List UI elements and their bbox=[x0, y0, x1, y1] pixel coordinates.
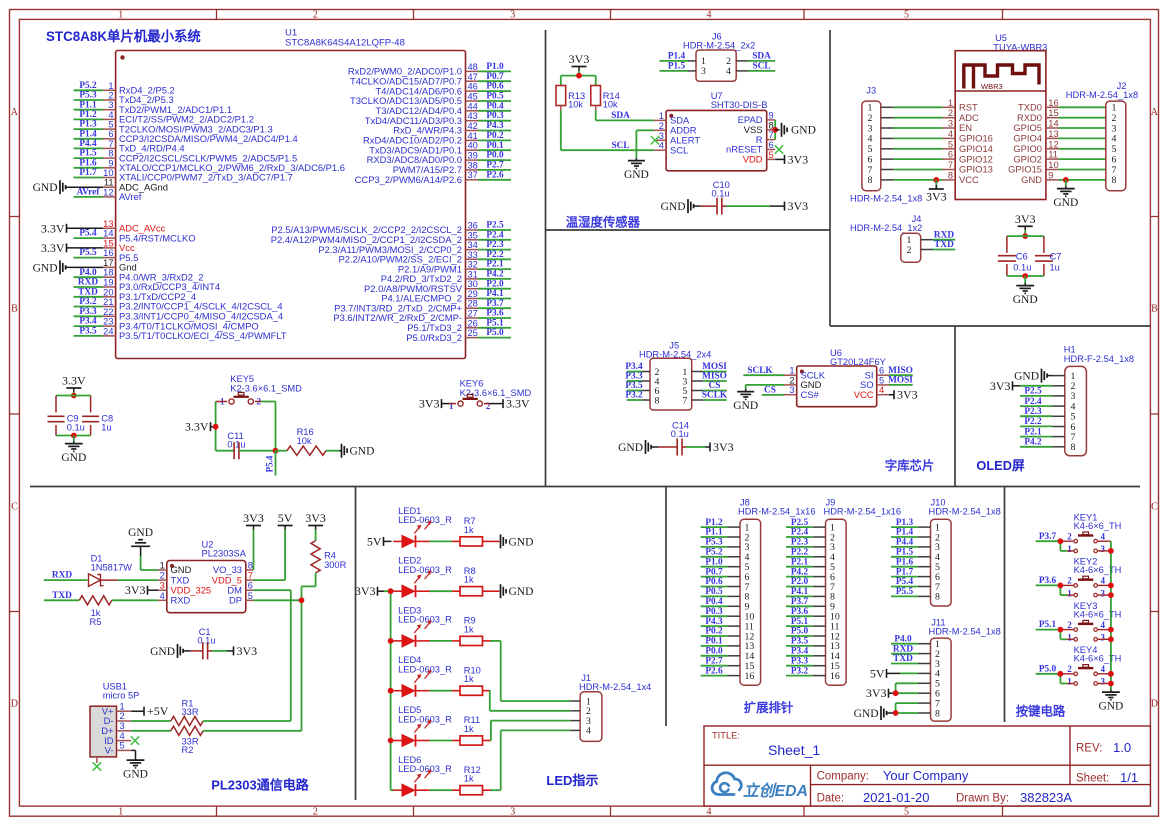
svg-text:CS: CS bbox=[709, 381, 721, 391]
U1 pin 4 ECI/T2/SS/PWM2_2/ADC2/P1.2 bbox=[74, 110, 254, 125]
svg-text:7: 7 bbox=[948, 160, 953, 170]
svg-text:44: 44 bbox=[468, 101, 478, 111]
svg-text:11: 11 bbox=[104, 178, 114, 188]
header J5 HDR-M-2.54_2x4 bbox=[639, 340, 711, 410]
svg-text:P1.7: P1.7 bbox=[896, 567, 914, 577]
svg-text:K4-6×6_TH: K4-6×6_TH bbox=[1074, 565, 1122, 575]
U1 pin 26 P5.1/TxD3_2 bbox=[407, 318, 511, 333]
svg-text:GND: GND bbox=[509, 536, 534, 548]
svg-text:SCL: SCL bbox=[670, 144, 688, 155]
header J6 HDR-M-2.54_2x2 bbox=[683, 31, 755, 81]
svg-text:P3.6: P3.6 bbox=[791, 607, 809, 617]
power flag 3V3 at H1 pin2 bbox=[990, 379, 1053, 393]
section title 按键电路 bbox=[1016, 704, 1066, 719]
svg-text:RXD: RXD bbox=[893, 644, 913, 654]
IC U7 SHT30-DIS-B bbox=[654, 91, 775, 171]
svg-text:4: 4 bbox=[1112, 134, 1117, 145]
svg-text:KEY5: KEY5 bbox=[230, 374, 254, 384]
svg-text:1u: 1u bbox=[101, 422, 111, 432]
svg-text:P3.6: P3.6 bbox=[486, 309, 504, 319]
wire J9 pin14 P3.4 bbox=[786, 647, 813, 657]
U5 pin 7 GPIO13 bbox=[893, 160, 992, 175]
ground GND right of R16 bbox=[339, 444, 374, 458]
svg-text:C6: C6 bbox=[1016, 251, 1028, 261]
wire U2 DM net bbox=[254, 590, 291, 721]
svg-text:3.3V: 3.3V bbox=[506, 397, 530, 411]
svg-text:AVref: AVref bbox=[119, 191, 142, 202]
svg-text:P2.3: P2.3 bbox=[1024, 407, 1042, 417]
junction KEY2 left bbox=[1058, 583, 1064, 589]
svg-text:2: 2 bbox=[1067, 531, 1072, 541]
svg-text:RXD: RXD bbox=[52, 571, 72, 581]
svg-text:4: 4 bbox=[707, 806, 712, 817]
ground GND below C6/C7 bbox=[1013, 276, 1038, 306]
wire KEY5 right leg bbox=[261, 402, 276, 451]
svg-text:6: 6 bbox=[769, 140, 774, 150]
U1 pin 27 P3.6/INT2/WR_2/RxD_2/CMP- bbox=[333, 309, 511, 324]
IC U6 GT20L24F6Y bbox=[784, 348, 889, 407]
svg-text:22: 22 bbox=[103, 307, 113, 317]
svg-text:3.3V: 3.3V bbox=[41, 241, 65, 255]
svg-text:LED-0603_R: LED-0603_R bbox=[398, 515, 452, 525]
svg-text:13: 13 bbox=[1048, 129, 1058, 139]
svg-text:P0.3: P0.3 bbox=[705, 607, 723, 617]
svg-text:P1.5: P1.5 bbox=[79, 149, 97, 159]
wire J8 pin14 P0.0 bbox=[701, 647, 728, 657]
svg-text:2: 2 bbox=[160, 571, 165, 581]
wire J8 pin3 P5.3 bbox=[701, 538, 728, 548]
resistor R5 1k bbox=[44, 596, 158, 627]
svg-text:P4.2: P4.2 bbox=[1024, 437, 1042, 447]
wire J8 pin13 P0.1 bbox=[701, 637, 728, 647]
svg-text:3V3: 3V3 bbox=[419, 397, 440, 411]
junction LED rail bbox=[388, 638, 394, 644]
wire J9 pin5 P2.1 bbox=[786, 557, 813, 567]
svg-text:P3.5: P3.5 bbox=[791, 637, 809, 647]
svg-text:HDR-M-2.54_1x2: HDR-M-2.54_1x2 bbox=[850, 223, 922, 233]
svg-text:14: 14 bbox=[103, 229, 113, 239]
no-connect X at USB1 ID bbox=[131, 736, 139, 744]
svg-text:4: 4 bbox=[586, 726, 591, 737]
svg-text:P0.4: P0.4 bbox=[705, 597, 723, 607]
svg-text:LED-0603_R: LED-0603_R bbox=[398, 615, 452, 625]
svg-text:3: 3 bbox=[1101, 544, 1106, 554]
svg-text:SDA: SDA bbox=[611, 111, 630, 121]
svg-text:P2.1: P2.1 bbox=[791, 557, 809, 567]
op-amp U1 designator labels bbox=[285, 28, 405, 49]
U1 pin 1 RxD4_2/P5.2 bbox=[74, 81, 175, 96]
svg-text:1: 1 bbox=[118, 806, 123, 817]
header H1 HDR-F-2.54_1x8 bbox=[1053, 345, 1135, 456]
svg-text:P0.0: P0.0 bbox=[486, 151, 504, 161]
wire C6/C7 top rail bbox=[1007, 235, 1044, 237]
svg-text:1k: 1k bbox=[464, 724, 474, 734]
svg-text:3V3: 3V3 bbox=[237, 644, 258, 658]
wire U6 CS# bbox=[762, 386, 784, 396]
svg-text:P5.2: P5.2 bbox=[79, 81, 97, 91]
svg-text:2: 2 bbox=[789, 375, 794, 385]
svg-text:5: 5 bbox=[769, 150, 774, 160]
junction LED rail bbox=[388, 688, 394, 694]
svg-text:34: 34 bbox=[468, 240, 478, 250]
wire U2 DP net bbox=[254, 600, 302, 731]
U1 pin 46 T4/ADC14/AD6/P0.6 bbox=[376, 82, 512, 97]
svg-text:P4.2: P4.2 bbox=[486, 270, 504, 280]
header J11 HDR-M-2.54_1x8 bbox=[918, 617, 1001, 721]
wire SDA net to U7 pin1 bbox=[596, 110, 654, 121]
wire J9 pin10 P3.6 bbox=[786, 607, 813, 617]
svg-text:0.1u: 0.1u bbox=[67, 422, 85, 432]
U1 pin 15 Vcc bbox=[41, 238, 135, 255]
svg-text:P2.6: P2.6 bbox=[486, 170, 504, 180]
svg-text:J3: J3 bbox=[866, 86, 876, 96]
junction U5 GND bbox=[1063, 177, 1069, 183]
resistor R10 1k bbox=[430, 665, 491, 695]
title block bbox=[704, 726, 1150, 806]
wire J5 left P3.5 bbox=[625, 381, 643, 391]
junction C6/C7 bottom bbox=[1022, 273, 1028, 279]
junction KEY4 left bbox=[1058, 671, 1064, 677]
junction C6/C7 top bbox=[1022, 233, 1028, 239]
power flag 3V3 at KEY6 left bbox=[419, 397, 450, 411]
U1 pin 7 TxD_4/RD/P4.4 bbox=[74, 139, 185, 154]
svg-text:Your Company: Your Company bbox=[883, 768, 969, 783]
svg-text:39: 39 bbox=[468, 151, 478, 161]
power flag 3V3 below U5 VCC bbox=[926, 180, 947, 204]
U1 pin 32 P2.1/A9/PWM1 bbox=[398, 260, 511, 275]
svg-text:5: 5 bbox=[948, 139, 953, 149]
wire H1 pin5 P2.3 bbox=[1020, 407, 1053, 417]
U1 pin 18 P4.0/WR_3/RxD2_2 bbox=[74, 268, 204, 283]
U1 pin 19 P3.0/RxD/CCP3_4/INT4 bbox=[74, 278, 221, 293]
svg-text:12: 12 bbox=[103, 187, 113, 197]
junction LED rail bbox=[388, 738, 394, 744]
wire J10 pin8 P5.5 bbox=[891, 587, 918, 597]
svg-text:P1.6: P1.6 bbox=[896, 557, 914, 567]
power flag 3V3 at LED rail bbox=[355, 584, 391, 598]
capacitor C10 0.1u bbox=[661, 180, 809, 215]
svg-text:36: 36 bbox=[468, 221, 478, 231]
U1 pin 28 P3.7/INT3/RD_2/TxD_2/CMP+ bbox=[334, 299, 511, 314]
svg-text:P4.2: P4.2 bbox=[791, 567, 809, 577]
svg-text:P3.4: P3.4 bbox=[625, 362, 643, 372]
wire J8 pin2 P1.1 bbox=[701, 528, 728, 538]
svg-text:1: 1 bbox=[1067, 677, 1072, 687]
wire U6 GND to ground bbox=[746, 385, 784, 389]
section title 扩展排针 bbox=[744, 700, 794, 715]
svg-text:8: 8 bbox=[655, 395, 660, 406]
LED4 LED-0603_R bbox=[393, 655, 452, 697]
wire J8 pin10 P0.3 bbox=[701, 607, 728, 617]
U1 pin 13 ADC_AVcc bbox=[41, 219, 166, 236]
svg-text:HDR-M-2.54_1x8: HDR-M-2.54_1x8 bbox=[1066, 90, 1138, 100]
svg-text:P3.2: P3.2 bbox=[79, 297, 97, 307]
svg-text:P5.4: P5.4 bbox=[896, 577, 914, 587]
svg-text:P3.2: P3.2 bbox=[625, 391, 643, 401]
svg-text:16: 16 bbox=[830, 671, 840, 682]
svg-text:9: 9 bbox=[1048, 170, 1053, 180]
svg-text:11: 11 bbox=[1048, 150, 1058, 160]
svg-text:CS#: CS# bbox=[801, 389, 820, 400]
wire C9/C8 bottom rail bbox=[56, 435, 91, 437]
svg-text:1: 1 bbox=[160, 561, 165, 571]
svg-text:P2.7: P2.7 bbox=[705, 656, 723, 666]
svg-text:LED-0603_R: LED-0603_R bbox=[398, 565, 452, 575]
junction KEY bus bbox=[1108, 583, 1114, 598]
svg-text:7: 7 bbox=[769, 130, 774, 140]
svg-text:Sheet:: Sheet: bbox=[1076, 773, 1109, 785]
svg-text:20: 20 bbox=[103, 287, 113, 297]
svg-text:8: 8 bbox=[1112, 175, 1117, 186]
svg-text:42: 42 bbox=[468, 121, 478, 131]
wire H1 pin4 P2.4 bbox=[1020, 397, 1053, 407]
svg-text:P0.1: P0.1 bbox=[486, 141, 504, 151]
svg-text:GND: GND bbox=[128, 527, 153, 539]
svg-text:R5: R5 bbox=[90, 617, 102, 627]
header J2 HDR-M-2.54_1x8 bbox=[1066, 81, 1138, 191]
wire J10 pin4 P1.5 bbox=[891, 548, 918, 558]
net label RXD bbox=[52, 571, 72, 581]
section title LED指示 bbox=[546, 773, 598, 788]
svg-text:2: 2 bbox=[313, 10, 318, 21]
U1 pin 30 P2.0/A8/PWM0/RSTSV bbox=[364, 279, 511, 294]
junction node C9/C8 top bbox=[71, 393, 77, 399]
svg-text:P2.4: P2.4 bbox=[1024, 397, 1042, 407]
svg-text:SHT30-DIS-B: SHT30-DIS-B bbox=[711, 100, 768, 110]
svg-text:P0.4: P0.4 bbox=[486, 101, 504, 111]
svg-text:2: 2 bbox=[659, 121, 664, 131]
svg-text:16: 16 bbox=[103, 248, 113, 258]
svg-text:P2.3: P2.3 bbox=[486, 240, 504, 250]
junction KEY bus bbox=[1108, 548, 1114, 554]
svg-text:K4-6×6_TH: K4-6×6_TH bbox=[1074, 521, 1122, 531]
svg-text:3: 3 bbox=[120, 721, 125, 731]
U5 pin 16 TXD0 bbox=[1018, 98, 1106, 113]
wire R12 to J1 pin4 bbox=[491, 730, 571, 790]
svg-text:P4.4: P4.4 bbox=[896, 538, 914, 548]
svg-text:2: 2 bbox=[907, 245, 912, 256]
svg-text:5: 5 bbox=[120, 741, 125, 751]
wire KEY5 left leg bbox=[215, 402, 217, 451]
wire J4 pin2 TXD bbox=[933, 240, 955, 250]
capacitor C1 0.1u bbox=[150, 627, 257, 659]
svg-text:3.3V: 3.3V bbox=[62, 374, 86, 388]
svg-text:4: 4 bbox=[1101, 531, 1106, 541]
ground GND above U2 pin1 bbox=[128, 527, 158, 570]
svg-text:P4.0: P4.0 bbox=[894, 634, 912, 644]
U1 pin 6 CCP3/I2CSDA/MISO/PWM4_2/ADC4/P1.4 bbox=[74, 129, 298, 144]
junction KEY bus bbox=[1108, 627, 1114, 643]
junction node P5.4 bbox=[273, 448, 279, 454]
svg-text:TXD: TXD bbox=[893, 654, 913, 664]
no-connect X at U7 nRESET bbox=[775, 145, 783, 153]
svg-text:3V3: 3V3 bbox=[305, 511, 326, 525]
junction KEY3 left bbox=[1058, 627, 1064, 633]
svg-text:P1.1: P1.1 bbox=[79, 100, 97, 110]
svg-text:P2.1: P2.1 bbox=[1024, 427, 1042, 437]
svg-text:P0.3: P0.3 bbox=[486, 111, 504, 121]
power flag 3V3 at U6 VCC bbox=[889, 388, 918, 402]
svg-text:3V3: 3V3 bbox=[569, 52, 590, 66]
svg-text:P2.0: P2.0 bbox=[486, 279, 504, 289]
svg-text:TXD: TXD bbox=[78, 287, 98, 297]
svg-text:13: 13 bbox=[103, 219, 113, 229]
svg-text:P5.1: P5.1 bbox=[486, 318, 504, 328]
diode D1 1N5817W bbox=[44, 553, 158, 586]
svg-text:Drawn By:: Drawn By: bbox=[956, 793, 1009, 805]
svg-text:GPIO4: GPIO4 bbox=[1013, 133, 1042, 144]
svg-text:KEY6: KEY6 bbox=[460, 379, 484, 389]
wire H1 pin7 P2.1 bbox=[1020, 427, 1053, 437]
svg-text:GPIO15: GPIO15 bbox=[1008, 164, 1042, 175]
wire P5.1 to KEY3 bbox=[1036, 620, 1067, 639]
section title PL2303通信电路 bbox=[211, 778, 310, 793]
switch KEY5 K2-3.6x6.1_SMD bbox=[216, 374, 303, 407]
svg-text:8: 8 bbox=[948, 170, 953, 180]
U1 pin 11 ADC_AGnd bbox=[33, 178, 168, 195]
wire J8 pin4 P5.2 bbox=[701, 548, 728, 558]
svg-text:1/1: 1/1 bbox=[1120, 770, 1138, 785]
svg-text:2: 2 bbox=[120, 711, 125, 721]
svg-text:P3.7: P3.7 bbox=[486, 299, 504, 309]
wire J9 pin16 P3.2 bbox=[786, 666, 813, 676]
U5 pin 4 GPIO16 bbox=[893, 129, 992, 144]
svg-text:2021-01-20: 2021-01-20 bbox=[863, 790, 930, 805]
svg-text:P5.0: P5.0 bbox=[1039, 664, 1057, 674]
U5 pin 12 GPIO0 bbox=[1013, 139, 1105, 154]
svg-text:25: 25 bbox=[468, 328, 478, 338]
svg-text:P0.6: P0.6 bbox=[486, 82, 504, 92]
svg-text:29: 29 bbox=[468, 289, 478, 299]
svg-text:HDR-M-2.54_1x16: HDR-M-2.54_1x16 bbox=[738, 507, 816, 517]
svg-text:21: 21 bbox=[103, 297, 113, 307]
svg-text:K4-6×6_TH: K4-6×6_TH bbox=[1074, 609, 1122, 619]
svg-text:7: 7 bbox=[108, 139, 113, 149]
U1 pin 8 CCP2/I2CSCL/SCLK/PWM5_2/ADC5/P1.5 bbox=[74, 149, 298, 164]
svg-text:3: 3 bbox=[510, 806, 515, 817]
svg-text:A: A bbox=[11, 107, 19, 118]
svg-text:1k: 1k bbox=[464, 624, 474, 634]
wire J8 pin6 P0.7 bbox=[701, 567, 728, 577]
svg-text:P2.5: P2.5 bbox=[486, 221, 504, 231]
svg-text:WBR3: WBR3 bbox=[981, 82, 1003, 91]
svg-text:1: 1 bbox=[449, 401, 454, 411]
svg-text:P1.5: P1.5 bbox=[896, 548, 914, 558]
svg-text:41: 41 bbox=[468, 131, 478, 141]
module U5 TUYA-WBR3 bbox=[955, 33, 1047, 200]
svg-text:P3.5: P3.5 bbox=[625, 381, 643, 391]
wire J9 pin13 P3.5 bbox=[786, 637, 813, 647]
U1 pin 35 P2.4/A12/PWM4/MISO_2/CCP1_2/I2CSDA_2 bbox=[271, 230, 511, 245]
U1 pin 10 XTALI/CCP0/PWM7_2/TxD_3/ADC7/P1.7 bbox=[74, 168, 293, 183]
U5 pin 1 RST bbox=[893, 98, 978, 113]
svg-text:GND: GND bbox=[618, 442, 643, 454]
ground GND below keys bbox=[1098, 690, 1123, 713]
U1 pin 39 RXD3/ADC8/AD0/P0.0 bbox=[367, 151, 511, 166]
LED1 LED-0603_R bbox=[393, 506, 452, 548]
svg-text:Company:: Company: bbox=[817, 771, 869, 783]
svg-text:5: 5 bbox=[904, 10, 909, 21]
svg-text:GND: GND bbox=[123, 769, 148, 781]
svg-text:SCL: SCL bbox=[611, 141, 629, 151]
capacitor C11 0.1u bbox=[216, 431, 276, 459]
wire J11 pin2 RXD bbox=[891, 644, 918, 654]
U1 pin 5 T2CLKO/MOSI/PWM3_2/ADC3/P1.3 bbox=[74, 120, 273, 135]
svg-text:GPIO2: GPIO2 bbox=[1013, 153, 1042, 164]
wire J10 pin6 P1.7 bbox=[891, 567, 918, 577]
svg-text:扩展排针: 扩展排针 bbox=[744, 700, 794, 715]
wire J5 right MOSI bbox=[702, 362, 727, 372]
svg-text:3V3: 3V3 bbox=[713, 440, 734, 454]
switch KEY2 K4-6x6_TH bbox=[1060, 557, 1121, 599]
wire J8 pin5 P1.0 bbox=[701, 557, 728, 567]
wire R9 to J1 pin1 bbox=[491, 641, 571, 701]
svg-text:38: 38 bbox=[468, 160, 478, 170]
power flag 3V3 above R13/R14 bbox=[569, 52, 590, 76]
svg-text:7: 7 bbox=[868, 165, 873, 176]
wire J8 pin9 P0.4 bbox=[701, 597, 728, 607]
U5 pin 3 EN bbox=[893, 119, 972, 134]
svg-text:1N5817W: 1N5817W bbox=[91, 563, 133, 573]
svg-text:P0.7: P0.7 bbox=[705, 567, 723, 577]
svg-text:P2.7: P2.7 bbox=[486, 161, 504, 171]
svg-text:17: 17 bbox=[103, 258, 113, 268]
wire J6 pin1 P1.4 bbox=[660, 52, 689, 62]
svg-text:字库芯片: 字库芯片 bbox=[885, 458, 935, 473]
wire C6/C7 bottom rail bbox=[1007, 275, 1044, 277]
svg-text:HDR-M-2.54_1x8: HDR-M-2.54_1x8 bbox=[850, 193, 922, 203]
svg-text:P1.0: P1.0 bbox=[705, 557, 723, 567]
power flag 5V at LED1 bbox=[367, 534, 392, 548]
svg-text:RST: RST bbox=[959, 102, 978, 113]
wire J9 pin3 P2.3 bbox=[786, 538, 813, 548]
svg-text:10: 10 bbox=[1048, 160, 1058, 170]
wire U7 VSS group to ground bbox=[772, 120, 778, 140]
power flag 3.3V above C9/C8 bbox=[62, 374, 86, 396]
svg-text:9: 9 bbox=[769, 110, 774, 120]
svg-text:2: 2 bbox=[1067, 620, 1072, 630]
svg-text:3V3: 3V3 bbox=[125, 583, 146, 597]
svg-text:300R: 300R bbox=[324, 560, 347, 570]
svg-text:TXD0: TXD0 bbox=[1018, 102, 1042, 113]
header J10 HDR-M-2.54_1x8 bbox=[918, 497, 1001, 606]
capacitor C14 0.1u bbox=[618, 421, 734, 456]
ground GND below U5 bbox=[1053, 180, 1078, 209]
svg-text:16: 16 bbox=[745, 671, 755, 682]
net label P5.4 vertical bbox=[265, 451, 276, 476]
svg-text:GND: GND bbox=[791, 124, 816, 136]
svg-text:TXD: TXD bbox=[934, 240, 954, 250]
logo 立创EDA bbox=[712, 773, 808, 800]
resistor R8 1k bbox=[430, 566, 491, 596]
ground GND at H1 pin1 bbox=[1014, 369, 1052, 383]
svg-text:P5.0: P5.0 bbox=[791, 627, 809, 637]
no-connect X at USB1 shield bbox=[93, 762, 101, 770]
svg-text:33: 33 bbox=[468, 250, 478, 260]
U1 pin 31 P4.2/RD_3/TxD2_2 bbox=[381, 269, 511, 284]
svg-text:2: 2 bbox=[486, 401, 491, 411]
wire P3.6 to KEY2 bbox=[1036, 576, 1067, 595]
junction KEY1 left bbox=[1058, 538, 1064, 544]
header J3 HDR-M-2.54_1x8 bbox=[850, 86, 922, 204]
svg-text:4: 4 bbox=[1101, 620, 1106, 630]
U1 pin 44 T3/ADC12/AD4/P0.4 bbox=[376, 101, 512, 116]
svg-text:CS: CS bbox=[764, 386, 776, 396]
U5 pin 2 ADC bbox=[893, 108, 979, 123]
svg-text:10k: 10k bbox=[568, 100, 583, 110]
svg-text:1u: 1u bbox=[1050, 262, 1060, 272]
svg-text:40: 40 bbox=[468, 141, 478, 151]
